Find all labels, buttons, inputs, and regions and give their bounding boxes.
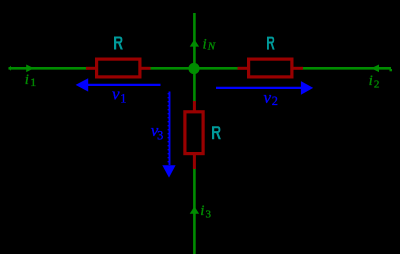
svg-text:1: 1 [120,92,126,106]
svg-text:2: 2 [272,94,278,108]
svg-text:i: i [203,37,207,53]
svg-text:i: i [25,72,29,88]
svg-text:N: N [207,41,216,53]
svg-text:1: 1 [30,75,36,89]
svg-text:3: 3 [157,129,163,143]
svg-text:i: i [369,73,373,89]
svg-text:i: i [200,203,204,219]
svg-text:2: 2 [374,78,380,90]
svg-text:v: v [112,84,120,103]
svg-text:3: 3 [206,208,212,220]
svg-text:v: v [264,88,272,107]
